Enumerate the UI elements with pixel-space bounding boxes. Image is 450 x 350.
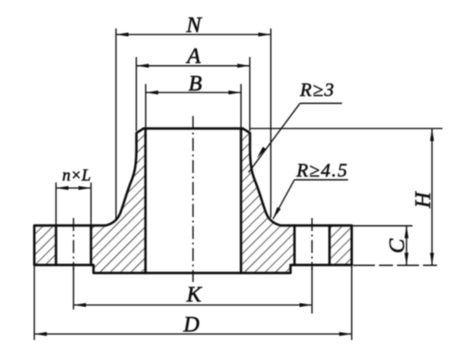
svg-text:N: N	[185, 12, 202, 37]
svg-text:H: H	[410, 191, 435, 209]
svg-text:B: B	[188, 71, 201, 96]
svg-text:R≥3: R≥3	[299, 80, 335, 101]
svg-text:K: K	[186, 282, 203, 307]
svg-text:R≥4.5: R≥4.5	[296, 161, 349, 182]
svg-text:A: A	[185, 43, 201, 68]
svg-text:n×L: n×L	[62, 166, 91, 185]
svg-text:C: C	[384, 238, 409, 253]
svg-text:D: D	[183, 312, 200, 337]
